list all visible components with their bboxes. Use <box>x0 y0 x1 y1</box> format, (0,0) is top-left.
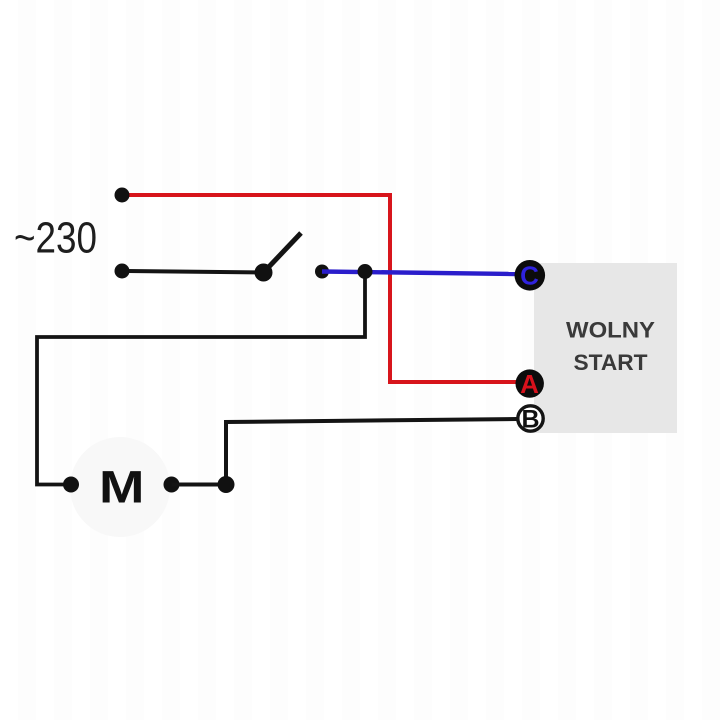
motor terminal node left <box>63 477 79 493</box>
corner node on motor-to-B wire <box>218 476 235 493</box>
svg-text:C: C <box>520 261 539 291</box>
node supply N (black wire left end) <box>115 264 130 279</box>
wire black: junction down and around to motor left <box>37 272 365 485</box>
terminal C circle <box>515 260 546 291</box>
svg-text:START: START <box>574 350 648 375</box>
wire blue: switch contact to terminal C <box>322 272 516 275</box>
svg-text:~230: ~230 <box>14 214 97 263</box>
svg-text:B: B <box>521 406 539 434</box>
module WOLNY START (soft-start box) <box>534 263 677 433</box>
switch S1 open contact node <box>315 265 329 279</box>
terminal B circle <box>518 406 543 431</box>
motor terminal node right <box>164 477 180 493</box>
wire black: motor right to terminal B <box>172 419 518 485</box>
svg-text:M: M <box>99 462 145 513</box>
terminal A circle <box>516 369 544 397</box>
wire red: supply line to terminal A <box>122 195 522 382</box>
switch S1 pivot node <box>255 264 273 282</box>
node supply L (red wire left end) <box>115 188 130 203</box>
junction node on blue wire <box>358 264 373 279</box>
motor M body <box>70 437 170 537</box>
svg-text:A: A <box>520 369 539 399</box>
wire black: supply N to switch <box>122 271 264 273</box>
switch S1 blade <box>264 233 302 273</box>
svg-text:WOLNY: WOLNY <box>566 318 655 343</box>
module label WOLNY START <box>566 318 655 376</box>
